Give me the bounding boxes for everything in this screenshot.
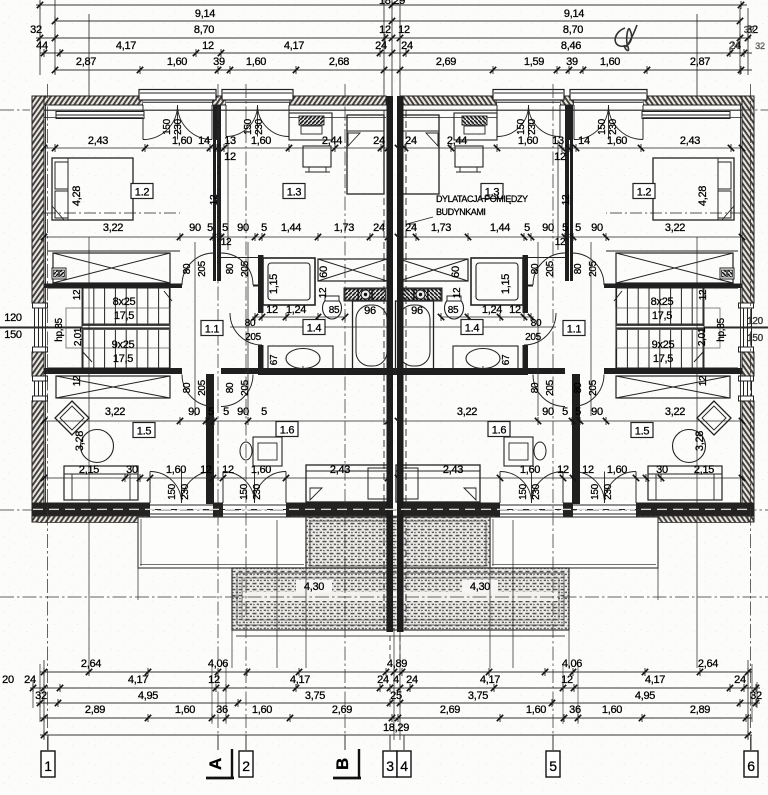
svg-text:150: 150 (239, 483, 250, 500)
svg-text:1,73: 1,73 (334, 222, 354, 234)
svg-text:5: 5 (207, 222, 213, 234)
svg-text:90: 90 (542, 406, 554, 418)
svg-text:12: 12 (266, 304, 278, 316)
svg-text:120: 120 (747, 316, 764, 327)
svg-text:2,64: 2,64 (698, 658, 718, 670)
svg-text:205: 205 (245, 332, 262, 343)
svg-text:17,5: 17,5 (113, 353, 133, 365)
svg-text:9x25: 9x25 (112, 339, 135, 351)
svg-text:12: 12 (200, 464, 212, 476)
svg-text:32: 32 (30, 24, 42, 36)
svg-text:1.6: 1.6 (492, 425, 507, 437)
svg-text:3,22: 3,22 (105, 406, 125, 418)
svg-text:5: 5 (562, 222, 568, 234)
svg-text:1,60: 1,60 (518, 135, 538, 147)
svg-text:67: 67 (269, 354, 280, 365)
svg-text:1.2: 1.2 (135, 187, 150, 199)
svg-text:1,60: 1,60 (246, 56, 266, 68)
svg-text:hp,85: hp,85 (54, 318, 65, 342)
svg-text:12: 12 (509, 304, 521, 316)
svg-text:90: 90 (591, 406, 603, 418)
svg-text:90: 90 (591, 222, 603, 234)
svg-text:1.1: 1.1 (205, 324, 220, 336)
svg-text:3: 3 (386, 758, 394, 774)
svg-text:5: 5 (222, 222, 228, 234)
svg-text:3,75: 3,75 (305, 690, 325, 702)
svg-text:30: 30 (656, 464, 668, 476)
svg-text:2,87: 2,87 (690, 56, 710, 68)
svg-text:96: 96 (364, 305, 376, 317)
svg-text:17,5: 17,5 (652, 310, 672, 322)
svg-text:4,30: 4,30 (470, 581, 490, 593)
svg-text:1.4: 1.4 (307, 323, 322, 335)
svg-text:80: 80 (225, 382, 236, 393)
svg-text:12: 12 (698, 289, 709, 300)
svg-text:205: 205 (240, 260, 251, 277)
svg-text:205: 205 (240, 379, 251, 396)
svg-text:90: 90 (237, 406, 249, 418)
svg-text:2: 2 (242, 758, 250, 774)
svg-text:205: 205 (197, 379, 208, 396)
svg-text:1,44: 1,44 (281, 222, 301, 234)
svg-text:36: 36 (216, 704, 228, 716)
svg-text:1,60: 1,60 (175, 704, 195, 716)
svg-text:hp,85: hp,85 (716, 318, 727, 342)
svg-text:17,5: 17,5 (114, 310, 134, 322)
svg-text:1,60: 1,60 (607, 464, 627, 476)
svg-text:4,17: 4,17 (116, 40, 136, 52)
svg-text:12: 12 (557, 464, 569, 476)
svg-text:18,29: 18,29 (379, 0, 405, 7)
svg-text:150: 150 (516, 118, 527, 135)
svg-text:150: 150 (4, 329, 22, 341)
svg-text:12: 12 (224, 151, 236, 163)
svg-text:1,60: 1,60 (252, 704, 272, 716)
svg-text:30: 30 (126, 464, 138, 476)
svg-text:4,06: 4,06 (562, 658, 582, 670)
svg-text:120: 120 (4, 312, 22, 324)
svg-text:85: 85 (448, 305, 459, 316)
svg-text:3,22: 3,22 (665, 406, 685, 418)
svg-text:8,46: 8,46 (561, 40, 581, 52)
svg-text:1,60: 1,60 (526, 704, 546, 716)
svg-text:205: 205 (197, 260, 208, 277)
svg-text:4,17: 4,17 (290, 674, 310, 686)
svg-text:12: 12 (452, 287, 463, 298)
svg-text:2,87: 2,87 (76, 56, 96, 68)
svg-text:150: 150 (167, 483, 178, 500)
svg-text:1,60: 1,60 (251, 135, 271, 147)
svg-text:4: 4 (400, 758, 408, 774)
svg-text:230: 230 (603, 483, 614, 500)
svg-text:1.3: 1.3 (287, 187, 302, 199)
svg-text:80: 80 (573, 263, 584, 274)
svg-text:4,89: 4,89 (387, 658, 407, 670)
svg-text:A: A (206, 758, 225, 770)
svg-text:80: 80 (530, 382, 541, 393)
svg-text:BUDYNKAMI: BUDYNKAMI (436, 207, 485, 217)
svg-text:24: 24 (729, 41, 740, 52)
svg-text:8,70: 8,70 (194, 24, 214, 36)
svg-text:1.4: 1.4 (465, 323, 480, 335)
svg-text:5: 5 (575, 406, 581, 418)
svg-text:60: 60 (450, 266, 462, 278)
svg-text:1,15: 1,15 (268, 274, 280, 294)
svg-text:150: 150 (243, 118, 254, 135)
svg-text:2,43: 2,43 (88, 135, 108, 147)
svg-text:80: 80 (182, 382, 193, 393)
svg-text:150: 150 (747, 333, 764, 344)
svg-text:1,60: 1,60 (607, 135, 627, 147)
svg-text:3,22: 3,22 (103, 222, 123, 234)
svg-text:17,5: 17,5 (653, 353, 673, 365)
svg-text:230: 230 (531, 483, 542, 500)
svg-text:12: 12 (202, 40, 214, 52)
svg-text:12: 12 (698, 375, 709, 386)
svg-text:96: 96 (411, 305, 423, 317)
svg-text:80: 80 (245, 318, 256, 329)
svg-text:1,60: 1,60 (600, 56, 620, 68)
svg-text:80: 80 (573, 382, 584, 393)
svg-text:1.6: 1.6 (280, 425, 295, 437)
svg-text:230: 230 (608, 118, 619, 135)
svg-text:3,28: 3,28 (694, 431, 706, 451)
svg-text:2,43: 2,43 (443, 464, 463, 476)
svg-text:39: 39 (213, 56, 225, 68)
svg-text:8,70: 8,70 (563, 24, 583, 36)
svg-text:4,17: 4,17 (284, 40, 304, 52)
svg-text:20: 20 (2, 674, 14, 686)
svg-text:12: 12 (318, 287, 329, 298)
svg-text:2,44: 2,44 (447, 135, 467, 147)
svg-text:150: 150 (518, 483, 529, 500)
svg-text:4: 4 (393, 674, 399, 686)
svg-text:1,60: 1,60 (166, 464, 186, 476)
svg-text:B: B (333, 758, 352, 770)
svg-text:12: 12 (379, 24, 391, 36)
svg-text:1,59: 1,59 (524, 56, 544, 68)
svg-text:24: 24 (24, 674, 36, 686)
svg-text:24: 24 (405, 135, 417, 147)
svg-text:2,15: 2,15 (694, 464, 714, 476)
svg-text:24: 24 (406, 674, 418, 686)
svg-text:14: 14 (578, 135, 590, 147)
svg-text:2,68: 2,68 (329, 56, 349, 68)
svg-text:67: 67 (501, 354, 512, 365)
svg-text:2,69: 2,69 (436, 56, 456, 68)
svg-text:9x25: 9x25 (652, 339, 675, 351)
svg-text:24: 24 (734, 674, 746, 686)
svg-text:3,22: 3,22 (665, 222, 685, 234)
svg-text:1,60: 1,60 (172, 135, 192, 147)
svg-text:90: 90 (237, 222, 249, 234)
svg-text:4,28: 4,28 (697, 186, 709, 206)
svg-text:3,22: 3,22 (457, 406, 477, 418)
svg-text:12: 12 (222, 464, 234, 476)
svg-text:2,69: 2,69 (440, 704, 460, 716)
svg-text:230: 230 (254, 118, 265, 135)
svg-text:205: 205 (525, 332, 542, 343)
svg-text:12: 12 (221, 237, 232, 248)
svg-text:12: 12 (554, 151, 566, 163)
svg-text:4,17: 4,17 (645, 674, 665, 686)
svg-text:13: 13 (552, 135, 564, 147)
svg-text:1.5: 1.5 (137, 426, 152, 438)
svg-text:12: 12 (582, 464, 594, 476)
svg-text:24: 24 (401, 40, 413, 52)
svg-text:24: 24 (375, 40, 387, 52)
svg-text:12: 12 (398, 24, 410, 36)
svg-text:1: 1 (44, 758, 52, 774)
svg-text:1.2: 1.2 (637, 187, 652, 199)
svg-text:12: 12 (208, 674, 220, 686)
svg-text:80: 80 (225, 263, 236, 274)
svg-text:1,60: 1,60 (602, 704, 622, 716)
svg-text:2,89: 2,89 (85, 704, 105, 716)
svg-text:8x25: 8x25 (651, 296, 674, 308)
svg-text:80: 80 (530, 263, 541, 274)
svg-text:150: 150 (590, 483, 601, 500)
svg-text:4,17: 4,17 (128, 674, 148, 686)
svg-text:12: 12 (72, 289, 83, 300)
svg-text:12: 12 (555, 237, 566, 248)
svg-text:85: 85 (329, 305, 340, 316)
svg-text:5: 5 (208, 406, 214, 418)
svg-text:230: 230 (527, 118, 538, 135)
svg-text:2,89: 2,89 (690, 704, 710, 716)
svg-text:1,73: 1,73 (431, 222, 451, 234)
svg-text:2,01: 2,01 (73, 327, 84, 346)
svg-text:12: 12 (561, 674, 573, 686)
svg-text:5: 5 (575, 222, 581, 234)
svg-text:4,30: 4,30 (304, 581, 324, 593)
svg-text:1,60: 1,60 (251, 464, 271, 476)
svg-text:205: 205 (588, 379, 599, 396)
svg-text:32: 32 (750, 690, 762, 702)
svg-text:24: 24 (405, 222, 417, 234)
svg-text:3,75: 3,75 (468, 690, 488, 702)
svg-text:1,44: 1,44 (490, 222, 510, 234)
svg-text:5: 5 (549, 758, 557, 774)
svg-text:80: 80 (182, 263, 193, 274)
svg-text:6: 6 (747, 758, 755, 774)
svg-text:4,95: 4,95 (138, 690, 158, 702)
svg-text:1.5: 1.5 (635, 426, 650, 438)
svg-text:2,43: 2,43 (680, 135, 700, 147)
svg-text:60: 60 (318, 266, 330, 278)
svg-text:1,60: 1,60 (520, 464, 540, 476)
svg-text:9,14: 9,14 (195, 8, 215, 20)
svg-text:2,69: 2,69 (332, 704, 352, 716)
svg-text:24: 24 (373, 135, 385, 147)
svg-text:36: 36 (569, 704, 581, 716)
svg-text:5: 5 (562, 406, 568, 418)
svg-text:2,43: 2,43 (330, 464, 350, 476)
svg-text:18,29: 18,29 (383, 722, 409, 734)
svg-text:90: 90 (188, 406, 200, 418)
svg-text:1,24: 1,24 (482, 304, 502, 316)
svg-text:24: 24 (377, 674, 389, 686)
svg-text:230: 230 (180, 483, 191, 500)
svg-text:4,95: 4,95 (635, 690, 655, 702)
svg-text:4,06: 4,06 (208, 658, 228, 670)
svg-text:44: 44 (36, 40, 48, 52)
svg-text:4,17: 4,17 (480, 674, 500, 686)
svg-text:205: 205 (545, 260, 556, 277)
svg-text:14: 14 (198, 135, 210, 147)
svg-text:1,15: 1,15 (500, 274, 512, 294)
svg-text:9,14: 9,14 (564, 8, 584, 20)
svg-text:90: 90 (189, 222, 201, 234)
svg-text:13: 13 (224, 135, 236, 147)
svg-text:1.1: 1.1 (567, 324, 582, 336)
svg-text:1,24: 1,24 (286, 304, 306, 316)
svg-text:39: 39 (566, 56, 578, 68)
svg-text:2,15: 2,15 (79, 464, 99, 476)
svg-text:DYLATACJA POMIĘDZY: DYLATACJA POMIĘDZY (436, 194, 528, 204)
svg-text:205: 205 (588, 260, 599, 277)
svg-text:2,01: 2,01 (697, 327, 708, 346)
svg-text:230: 230 (173, 118, 184, 135)
svg-text:12: 12 (561, 194, 572, 205)
svg-text:205: 205 (545, 379, 556, 396)
svg-text:5: 5 (261, 406, 267, 418)
svg-text:5: 5 (524, 222, 530, 234)
svg-text:12: 12 (72, 375, 83, 386)
svg-text:25: 25 (390, 690, 402, 702)
svg-text:90: 90 (542, 222, 554, 234)
svg-text:150: 150 (597, 118, 608, 135)
svg-text:32: 32 (755, 41, 765, 51)
svg-text:150: 150 (162, 118, 173, 135)
svg-text:3,28: 3,28 (74, 431, 86, 451)
svg-text:32: 32 (35, 690, 47, 702)
svg-text:24: 24 (373, 222, 385, 234)
svg-text:4,28: 4,28 (71, 186, 83, 206)
svg-text:32: 32 (744, 25, 755, 36)
svg-text:80: 80 (531, 318, 542, 329)
svg-text:5: 5 (223, 406, 229, 418)
svg-text:12: 12 (209, 194, 220, 205)
svg-text:5: 5 (261, 222, 267, 234)
svg-text:2,44: 2,44 (322, 135, 342, 147)
svg-text:8x25: 8x25 (113, 296, 136, 308)
svg-text:1,60: 1,60 (167, 56, 187, 68)
svg-text:2,64: 2,64 (81, 658, 101, 670)
svg-text:230: 230 (252, 483, 263, 500)
